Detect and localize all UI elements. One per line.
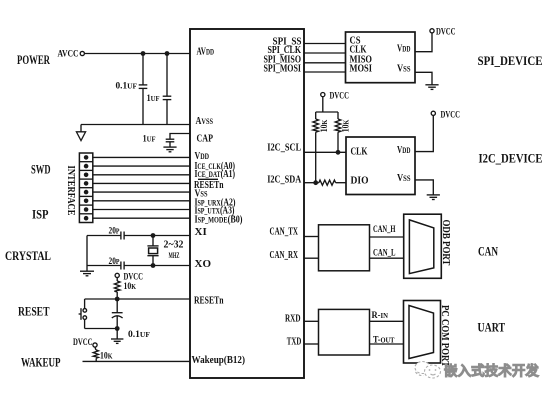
wire SPI_MOSI [304,71,346,73]
wire CAN_RX [304,257,319,259]
UART transceiver U5 [319,309,370,355]
svg-text:10K: 10K [320,120,330,133]
resistor R4 10K [335,112,341,152]
terminal DVCC (SPI) [430,29,434,33]
wire SPI_CLK [304,52,346,54]
ground at CAP [163,147,176,152]
wire to switch [84,299,86,308]
svg-text:ISP: ISP [32,207,49,222]
terminal DVCC (wakeup) [93,343,97,347]
svg-text:CAN_H: CAN_H [373,225,396,235]
wire SPI_MISO [304,62,346,64]
wire pullup top bar [316,111,338,113]
resistor R1 10K [114,278,120,300]
capacitor C2 1UF [163,54,172,125]
svg-text:AVCC: AVCC [58,50,79,60]
svg-text:CRYSTAL: CRYSTAL [5,248,51,263]
svg-text:SWD: SWD [31,162,51,177]
svg-text:VSS: VSS [397,172,411,184]
svg-text:PC COM PORT: PC COM PORT [439,305,450,367]
wire SPI_SS [304,43,346,45]
svg-text:SPI_MOSI: SPI_MOSI [264,63,302,75]
svg-text:CAP: CAP [197,132,214,144]
wire pin1 Vdd [93,156,190,158]
svg-text:R-IN: R-IN [372,311,389,321]
UART DB connector J3 [404,301,441,364]
crystal Y1 2~32MHZ [147,236,158,266]
svg-text:XO: XO [195,258,212,270]
wire switch bottom [85,328,118,330]
wire XO [87,265,121,267]
svg-text:VDD: VDD [397,144,411,156]
MCU U1 [190,29,304,378]
svg-text:0.1UF: 0.1UF [128,330,150,340]
wire SDA to DIO [336,182,346,184]
wire RXD [304,320,319,322]
wire T-OUT [370,343,404,345]
svg-text:I2C_DEVICE: I2C_DEVICE [479,151,543,166]
svg-text:WAKEUP: WAKEUP [21,355,61,370]
svg-text:XI: XI [195,226,207,238]
ground at crystal [80,271,94,276]
svg-text:MOSI: MOSI [350,63,373,75]
connector J1 INTERFACE [79,153,92,223]
svg-text:10K: 10K [100,351,113,361]
svg-text:I2C_SCL: I2C_SCL [267,141,301,153]
wire pin5 Vss [93,191,190,193]
svg-text:RESETn: RESETn [194,295,224,307]
svg-text:DVCC: DVCC [441,110,461,120]
CAN DB connector J2 [404,214,442,278]
svg-text:CAN: CAN [478,244,498,259]
watermark logo [415,362,441,379]
wire TXD [304,343,319,345]
svg-text:10K: 10K [342,120,352,133]
junction on AVCC wire 2 [165,51,170,56]
svg-text:MHZ: MHZ [169,251,180,260]
wire pin8 ISP_MODE [93,217,190,219]
svg-text:UART: UART [478,320,506,335]
wire XO to MCU [124,265,190,267]
resistor R2 10K [93,347,98,361]
wire XI [87,235,121,237]
junction SDA pullup [313,180,318,185]
svg-text:VDD: VDD [397,42,411,54]
wire CAN_TX [304,236,319,238]
svg-text:T-OUT: T-OUT [373,336,395,346]
junction on AVCC wire [141,51,146,56]
svg-text:RXD: RXD [285,312,301,324]
svg-text:POWER: POWER [17,52,50,67]
svg-text:2~32: 2~32 [164,240,184,251]
ground at SPI [425,85,438,90]
svg-text:Wakeup(B12): Wakeup(B12) [192,354,246,366]
svg-text:10K: 10K [124,282,137,292]
svg-text:1UF: 1UF [147,94,160,104]
ground at reset [111,329,123,344]
svg-text:ODB PORT: ODB PORT [440,220,451,266]
terminal DVCC (I2C pullups) [321,93,325,97]
svg-text:DVCC: DVCC [436,28,456,38]
wire I2C_SCL [304,151,346,153]
wire CAN_L [370,257,404,259]
terminal AVCC [80,51,84,55]
junction RESETn [115,297,120,302]
svg-text:20P: 20P [109,257,120,267]
svg-text:0.1UF: 0.1UF [116,82,138,92]
svg-text:CAN_TX: CAN_TX [270,226,299,238]
I2C device U3 [346,137,415,195]
junction XI [151,233,156,238]
overline pin RESETn [198,178,218,180]
svg-text:AVSS: AVSS [196,115,214,127]
svg-text:TXD: TXD [287,335,302,347]
ground arrow AVss [76,125,85,141]
capacitor C5 20P [121,262,124,270]
wire SPI Vdd to DVCC [415,33,432,52]
svg-text:1UF: 1UF [143,134,156,144]
SPI device U2 [346,32,416,83]
svg-text:CAN_L: CAN_L [373,249,396,259]
wire pin4 RESETn [93,182,190,184]
svg-text:I2C_SDA: I2C_SDA [267,173,301,185]
wire CAN_H [370,236,404,238]
wire crystal left leg [86,236,88,272]
svg-text:INTERFACE: INTERFACE [65,166,76,216]
junction SCL pullup [336,150,341,155]
wire AVCC to AVdd [85,53,190,55]
wire SPI Vss to ground [415,72,432,84]
capacitor C4 20P [121,232,124,240]
svg-text:ISP_MODE(B0): ISP_MODE(B0) [195,213,243,225]
ground at I2C [427,195,440,200]
svg-text:SPI_DEVICE: SPI_DEVICE [478,53,543,68]
terminal DVCC (reset) [115,273,119,277]
capacitor C6 0.1UF [112,299,123,329]
wire I2C_SDA [304,182,319,184]
wire I2C Vss to ground [415,180,433,195]
svg-text:AVDD: AVDD [197,46,215,58]
svg-text:DIO: DIO [351,175,369,187]
wire pin6 ISP_URX [93,200,190,202]
svg-text:DVCC: DVCC [330,92,350,102]
svg-text:DVCC: DVCC [73,338,93,348]
svg-text:CLK: CLK [351,145,368,157]
resistor R5 (SDA series) [319,180,336,185]
switch S1 [79,308,87,320]
wire pin7 ISP_UTX [93,209,190,211]
svg-text:嵌入式技术开发: 嵌入式技术开发 [444,363,539,379]
wire from switch [84,320,86,329]
wire XI to MCU [124,235,190,237]
wire Wakeup [83,360,191,362]
svg-text:VSS: VSS [397,62,411,74]
wire R-IN [370,320,404,322]
wire CAP pin [170,134,190,139]
capacitor C3 1UF [166,139,175,147]
svg-text:20P: 20P [109,227,120,237]
wire I2C Vdd to DVCC [415,115,433,151]
junction cap bottom [115,326,120,331]
wire RESETn [85,298,190,300]
svg-text:CAN_RX: CAN_RX [270,249,299,261]
wire DVCC to pullups [322,97,324,112]
junction XO [151,263,156,268]
resistor R3 10K (SCL pullup is right) [313,112,319,183]
wire pin3 ICE_DAT [93,174,190,176]
svg-text:RESET: RESET [18,304,50,319]
capacitor C1 0.1UF [139,54,148,125]
terminal DVCC (I2C device) [431,111,435,115]
wire pin2 ICE_CLK [93,165,190,167]
CAN transceiver U4 [319,225,370,271]
wire AVss rail [81,124,190,126]
